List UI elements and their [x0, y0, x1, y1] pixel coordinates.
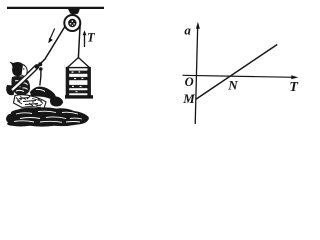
- crate slats: [69, 71, 88, 74]
- person: torso scribble: [11, 76, 30, 96]
- svg-text:O: O: [185, 75, 194, 89]
- wire: rope right segment (pulley to sling): [78, 24, 80, 58]
- graph: vertical axis (a): [195, 26, 198, 124]
- person: arm band (white between strokes): [11, 65, 39, 92]
- svg-text:N: N: [227, 78, 238, 93]
- svg-text:T: T: [289, 80, 299, 95]
- svg-text:M: M: [182, 91, 195, 106]
- person: folded legs band: [30, 87, 56, 100]
- person: shoulder/back: [6, 85, 14, 95]
- person: head hair: [12, 62, 25, 76]
- svg-text:a: a: [184, 23, 191, 38]
- ground mound: [6, 107, 89, 126]
- pulley hub: [68, 19, 76, 27]
- crate body: [66, 68, 90, 97]
- crate bottom edge: [65, 95, 93, 98]
- force arrow T: [84, 34, 86, 48]
- crate right edge: [87, 68, 90, 97]
- person: fists on rope: [35, 64, 40, 69]
- person: lap shading: [14, 95, 47, 109]
- person: shoe: [50, 97, 63, 107]
- graph: line M-N: [196, 45, 277, 100]
- wire: rope tail below hands: [40, 69, 41, 86]
- person: face: [22, 65, 28, 77]
- pulley wheel: [64, 15, 80, 31]
- pulley bracket: [68, 9, 80, 14]
- rope direction arrow: [50, 29, 55, 40]
- person: hair spike: [10, 62, 15, 67]
- wire: rope left segment (pulley to hands): [41, 27, 65, 64]
- crate left edge: [66, 68, 69, 97]
- graph: horizontal axis (T): [183, 75, 295, 77]
- sling ropes to crate: [67, 58, 89, 68]
- ceiling: [7, 7, 104, 9]
- svg-text:T: T: [87, 30, 96, 44]
